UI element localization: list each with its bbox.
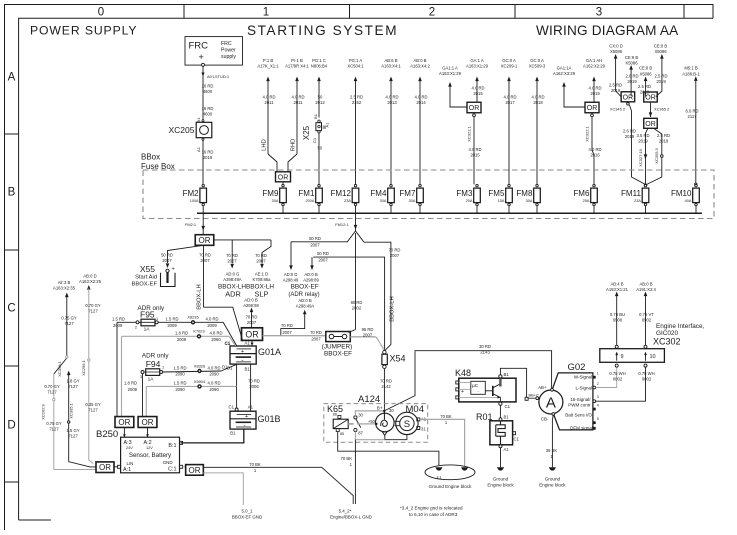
- svg-text:BBOX-EF: BBOX-EF: [132, 281, 158, 287]
- svg-text:0002: 0002: [642, 377, 652, 382]
- svg-text:2007: 2007: [363, 333, 373, 338]
- svg-text:A162:X2:29: A162:X2:29: [583, 64, 606, 69]
- svg-text:OR: OR: [645, 95, 656, 102]
- svg-text:A1: A1: [325, 122, 330, 128]
- svg-text:4600: 4600: [203, 89, 213, 94]
- svg-text:0.75 WH: 0.75 WH: [609, 371, 625, 376]
- svg-text:FM1: FM1: [298, 189, 315, 198]
- svg-text:2017: 2017: [505, 100, 515, 105]
- svg-text:0.70 GY: 0.70 GY: [44, 384, 60, 389]
- svg-text:2007: 2007: [310, 242, 320, 247]
- wire XC205 to FM2: [202, 140, 204, 184]
- fuse FM3: [456, 184, 480, 213]
- svg-text:AD:0 B: AD:0 B: [304, 272, 317, 277]
- svg-text:FM10: FM10: [671, 189, 692, 198]
- svg-text:1.5 RD: 1.5 RD: [112, 317, 125, 322]
- svg-text:30: 30: [389, 408, 394, 413]
- svg-text:XC302: XC302: [653, 337, 681, 347]
- svg-text:F94: F94: [146, 359, 161, 369]
- svg-text:2.5 RD: 2.5 RD: [638, 84, 651, 89]
- svg-text:2.5 RD: 2.5 RD: [609, 82, 622, 87]
- OR gate at B250 C:1: [183, 466, 186, 468]
- wire split below FM12: [347, 231, 364, 242]
- svg-text:2090: 2090: [209, 387, 219, 392]
- svg-text:OR: OR: [199, 236, 211, 245]
- svg-text:XC205: XC205: [169, 125, 195, 135]
- svg-text:85: 85: [340, 432, 344, 436]
- svg-text:XC327:19: XC327:19: [638, 148, 643, 167]
- wire LHD bend to OR: [268, 154, 277, 172]
- svg-text:70 RD: 70 RD: [199, 253, 211, 258]
- svg-text:Ground: Ground: [545, 477, 561, 482]
- svg-text:2.6 RD: 2.6 RD: [625, 73, 638, 78]
- node XC305:1 stub: [67, 371, 71, 376]
- svg-text:AB:0 B: AB:0 B: [413, 58, 426, 63]
- svg-text:OR: OR: [469, 105, 480, 112]
- OR gate left above FM11: [621, 92, 635, 102]
- BBox Fuse Box dashed enclosure: [143, 170, 714, 219]
- svg-text:AB:6 B: AB:6 B: [384, 58, 397, 63]
- svg-text:Start Aid: Start Aid: [135, 275, 157, 281]
- svg-text:C1: C1: [505, 404, 511, 409]
- svg-text:OR: OR: [245, 329, 258, 339]
- svg-text:7127: 7127: [68, 434, 78, 439]
- svg-text:*3,4_2 Engine gnd is relocated: *3,4_2 Engine gnd is relocated: [400, 506, 463, 511]
- svg-text:AD:0 G: AD:0 G: [226, 272, 240, 277]
- fuse FM8: [516, 184, 540, 213]
- svg-text:X8326: X8326: [194, 363, 205, 368]
- svg-text:50 RD: 50 RD: [317, 251, 329, 256]
- svg-text:4.0 RD: 4.0 RD: [207, 381, 220, 386]
- svg-text:A:2: A:2: [144, 440, 152, 446]
- fuse FM7: [399, 184, 423, 213]
- svg-text:1A: 1A: [148, 376, 155, 382]
- svg-text:A191:X2:4: A191:X2:4: [636, 287, 656, 292]
- svg-text:1: 1: [162, 366, 164, 370]
- svg-text:FM8: FM8: [516, 189, 533, 198]
- svg-text:GA1:1 A: GA1:1 A: [442, 66, 458, 71]
- svg-text:70 RD: 70 RD: [380, 379, 392, 384]
- svg-text:30: 30: [358, 413, 363, 418]
- svg-text:+50: +50: [368, 419, 376, 424]
- svg-text:GA:1 AH: GA:1 AH: [586, 58, 602, 63]
- svg-text:2.5 RD: 2.5 RD: [657, 133, 670, 138]
- svg-text:B: B: [8, 187, 16, 199]
- svg-text:FM9: FM9: [262, 189, 279, 198]
- svg-text:1.5 RD: 1.5 RD: [173, 365, 186, 370]
- svg-text:2143: 2143: [480, 350, 490, 355]
- fuse FM9: [262, 184, 286, 213]
- svg-text:7127: 7127: [88, 309, 98, 314]
- svg-text:G02: G02: [568, 362, 586, 373]
- svg-text:B1: B1: [313, 113, 318, 119]
- svg-text:A: A: [546, 394, 556, 411]
- svg-text:2002: 2002: [352, 306, 362, 311]
- svg-text:95 RD: 95 RD: [362, 327, 374, 332]
- svg-text:DFM signal: DFM signal: [570, 425, 593, 430]
- svg-text:AD:0 B: AD:0 B: [244, 298, 257, 303]
- svg-text:0.35 GY: 0.35 GY: [85, 402, 101, 407]
- svg-text:XC209-1: XC209-1: [501, 64, 518, 69]
- svg-text:31: 31: [421, 427, 426, 432]
- svg-text:4.0 RD: 4.0 RD: [468, 147, 481, 152]
- svg-text:D: D: [7, 420, 15, 432]
- svg-text:1.8 RD: 1.8 RD: [175, 331, 188, 336]
- svg-text:2019: 2019: [656, 79, 666, 84]
- wire G02 CB- to ground: [551, 415, 554, 467]
- svg-text:K709:86a: K709:86a: [253, 277, 272, 282]
- svg-text:+: +: [172, 267, 175, 273]
- svg-text:50 RD: 50 RD: [161, 253, 173, 258]
- svg-text:GND: GND: [163, 460, 173, 465]
- OR gate hub below FM2: [195, 235, 214, 246]
- wire R01 to ground: [500, 448, 502, 468]
- svg-text:A163:X2:35: A163:X2:35: [53, 286, 76, 291]
- wire FRC to XC205: [202, 66, 204, 120]
- svg-text:2007: 2007: [247, 320, 257, 325]
- svg-text:70 RD: 70 RD: [255, 253, 267, 258]
- svg-text:6.0 RD: 6.0 RD: [685, 108, 698, 113]
- svg-text:4.0 RD: 4.0 RD: [385, 95, 398, 100]
- svg-text:-: -: [241, 357, 243, 364]
- svg-text:2016: 2016: [590, 153, 600, 158]
- svg-text:2912: 2912: [315, 100, 325, 105]
- svg-text:BB+C: BB+C: [529, 393, 539, 398]
- svg-text:XC398:1: XC398:1: [57, 360, 62, 376]
- svg-text:FRC: FRC: [189, 41, 209, 52]
- svg-text:GA:1 A: GA:1 A: [470, 58, 483, 63]
- svg-text:P:1 B: P:1 B: [263, 58, 273, 63]
- svg-text:0.75 WH: 0.75 WH: [638, 371, 654, 376]
- svg-text:4.0 RD: 4.0 RD: [414, 95, 427, 100]
- svg-text:OR: OR: [645, 121, 656, 128]
- svg-text:1.5 GY: 1.5 GY: [66, 428, 79, 433]
- wire F95 line1: [117, 321, 136, 323]
- svg-text:2006: 2006: [249, 384, 259, 389]
- svg-text:XC365 2: XC365 2: [654, 107, 669, 112]
- svg-text:B1: B1: [504, 414, 510, 419]
- svg-text:0.75 GY: 0.75 GY: [46, 421, 62, 426]
- svg-text:GC:0 A: GC:0 A: [530, 58, 544, 63]
- svg-text:OR: OR: [99, 463, 111, 472]
- fuse FM1: [298, 184, 322, 213]
- svg-text:0002: 0002: [613, 377, 623, 382]
- svg-text:CE:0 B: CE:0 B: [654, 44, 667, 49]
- svg-text:Sensor, Battery: Sensor, Battery: [129, 452, 172, 459]
- svg-text:M5:1 B: M5:1 B: [684, 66, 697, 71]
- svg-text:C1: C1: [229, 405, 235, 410]
- wire line2 (1.8 RD): [122, 335, 230, 337]
- svg-text:Ground Engine block: Ground Engine block: [429, 484, 473, 489]
- wire +50: [357, 423, 375, 425]
- svg-text:LIN: LIN: [127, 461, 134, 466]
- svg-text:2019: 2019: [638, 139, 648, 144]
- svg-text:FM6: FM6: [573, 189, 590, 198]
- svg-text:FRC: FRC: [221, 41, 232, 47]
- svg-text:to 6,10 in case of ADR3: to 6,10 in case of ADR3: [409, 512, 458, 517]
- svg-text:A163:X2:25: A163:X2:25: [79, 279, 102, 284]
- wire 70BK to engine ground: [420, 419, 465, 466]
- fuse FM12: [330, 184, 358, 213]
- svg-text:16 RD: 16 RD: [202, 106, 214, 111]
- svg-text:C1: C1: [514, 437, 520, 442]
- svg-text:3: 3: [597, 395, 599, 399]
- svg-text:2019: 2019: [659, 139, 669, 144]
- svg-text:0: 0: [98, 7, 104, 19]
- wire OR-lower right branch: [647, 128, 662, 184]
- svg-text:2: 2: [135, 326, 137, 330]
- svg-text:Fuse Box: Fuse Box: [141, 162, 175, 171]
- svg-text:2009: 2009: [113, 323, 123, 328]
- svg-text:30A: 30A: [380, 199, 387, 203]
- K65 contact 30/87: [354, 416, 357, 419]
- wire 80RD into jumper: [349, 330, 356, 333]
- svg-text:AD:0 D: AD:0 D: [284, 272, 298, 277]
- svg-text:100A: 100A: [190, 199, 199, 203]
- svg-text:A298:98: A298:98: [243, 303, 259, 308]
- svg-text:50: 50: [317, 146, 322, 151]
- svg-text:A: A: [8, 72, 16, 84]
- svg-text:30A: 30A: [526, 199, 533, 203]
- svg-text:30 RD: 30 RD: [479, 344, 491, 349]
- wire RHD bend to OR: [288, 154, 297, 172]
- svg-text:2013: 2013: [387, 100, 397, 105]
- svg-text:X25: X25: [302, 125, 311, 140]
- svg-text:AB:0 D: AB:0 D: [83, 274, 96, 279]
- svg-text:XC345 2: XC345 2: [610, 107, 625, 112]
- connector XC302: [600, 349, 665, 363]
- svg-text:23A: 23A: [344, 199, 351, 203]
- svg-text:A163:X4:2: A163:X4:2: [410, 64, 430, 69]
- wires G01A down to G01B: [236, 364, 238, 408]
- svg-text:FM2:1: FM2:1: [185, 222, 196, 227]
- wire K48 B1 to alternator B+: [500, 368, 526, 397]
- svg-text:40A: 40A: [685, 199, 692, 203]
- svg-text:80 RD: 80 RD: [351, 300, 363, 305]
- svg-text:A298:49A: A298:49A: [296, 303, 315, 308]
- svg-text:2007: 2007: [390, 253, 400, 258]
- svg-text:F95: F95: [140, 310, 155, 320]
- wire hub right manifold: [214, 239, 271, 241]
- svg-text:LHD: LHD: [262, 139, 268, 151]
- svg-text:0.75 GY: 0.75 GY: [61, 316, 77, 321]
- svg-text:FM4: FM4: [370, 189, 387, 198]
- FRC power supply box: [185, 37, 243, 66]
- fuse FM2: [183, 184, 207, 213]
- svg-text:-: -: [243, 423, 245, 430]
- svg-text:A124: A124: [358, 394, 380, 405]
- svg-text:2009: 2009: [207, 323, 217, 328]
- svg-text:70 RD: 70 RD: [248, 379, 260, 384]
- svg-text:3: 3: [140, 375, 142, 379]
- svg-text:XC202:9: XC202:9: [41, 403, 46, 419]
- svg-text:2090: 2090: [175, 372, 185, 377]
- svg-text:15A: 15A: [498, 199, 505, 203]
- svg-text:S: S: [404, 419, 410, 430]
- svg-text:2007: 2007: [282, 330, 292, 335]
- svg-text:Batt Sens I/O: Batt Sens I/O: [565, 412, 592, 417]
- svg-text:4.0 RD: 4.0 RD: [471, 86, 484, 91]
- OR gate above FM9: [276, 172, 291, 182]
- svg-text:2019: 2019: [625, 134, 635, 139]
- svg-text:9: 9: [621, 354, 624, 360]
- svg-text:Engine/BBOX-L GND: Engine/BBOX-L GND: [330, 515, 372, 520]
- svg-text:70 RD: 70 RD: [281, 323, 293, 328]
- wire right arm to BBOX-LH drop: [364, 242, 391, 350]
- svg-text:BBox: BBox: [141, 153, 160, 162]
- svg-text:5: 5: [597, 417, 599, 421]
- svg-text:1A: 1A: [144, 327, 151, 333]
- svg-text:A163:X4:1: A163:X4:1: [381, 64, 401, 69]
- svg-text:X55: X55: [140, 264, 155, 274]
- svg-text:86: 86: [333, 413, 337, 417]
- svg-text:20A: 20A: [466, 199, 473, 203]
- branch AD:0D arrow: [290, 242, 292, 266]
- svg-text:CX:0 D: CX:0 D: [609, 44, 623, 49]
- svg-text:0.75 VT: 0.75 VT: [639, 312, 654, 317]
- svg-text:CE:0 B: CE:0 B: [639, 66, 652, 71]
- svg-text:1: 1: [263, 7, 269, 19]
- svg-text:RHD: RHD: [291, 139, 297, 152]
- fuse FM5: [488, 184, 512, 213]
- svg-text:A0'LSTUD:1: A0'LSTUD:1: [207, 74, 230, 79]
- svg-text:FM12: FM12: [330, 189, 351, 198]
- svg-text:2014: 2014: [416, 100, 426, 105]
- svg-text:3.5 RD: 3.5 RD: [636, 133, 649, 138]
- svg-text:2152: 2152: [352, 100, 362, 105]
- svg-text:70 RD: 70 RD: [389, 248, 401, 253]
- svg-text:2019: 2019: [611, 88, 621, 93]
- ground engine block (G02): [549, 467, 556, 470]
- wire F94 line3 to D1: [163, 371, 221, 372]
- svg-text:16 RD: 16 RD: [202, 84, 214, 89]
- svg-text:2060: 2060: [211, 337, 221, 342]
- wire 30 RD 2143 starter to alternator: [384, 351, 551, 411]
- svg-text:70 RD: 70 RD: [246, 315, 258, 320]
- svg-text:A298:49: A298:49: [283, 278, 299, 283]
- svg-text:POWER SUPPLY: POWER SUPPLY: [30, 23, 137, 37]
- starter internal ground: [382, 432, 387, 435]
- svg-text:GA1:1A: GA1:1A: [557, 66, 572, 71]
- svg-text:G01A: G01A: [258, 347, 281, 357]
- wire F95 line1 to C1: [223, 322, 237, 346]
- svg-text:B+: B+: [377, 406, 383, 411]
- svg-text:µC: µC: [472, 383, 479, 389]
- fuse FM10: [671, 184, 699, 213]
- svg-text:FM5: FM5: [488, 189, 505, 198]
- svg-text:2: 2: [429, 7, 435, 19]
- OR gate lower above FM11: [650, 102, 652, 117]
- wire 87 to motor ground bus: [355, 432, 384, 440]
- svg-text:PG:1 A: PG:1 A: [349, 58, 362, 63]
- branch ADR arrow: [231, 240, 233, 264]
- svg-text:C1: C1: [225, 341, 231, 346]
- wire G01B B1 to B250: [181, 429, 244, 443]
- svg-text:A1: A1: [245, 341, 251, 346]
- svg-text:B250: B250: [96, 429, 118, 440]
- svg-text:Engine Interface,: Engine Interface,: [656, 323, 705, 330]
- svg-text:FM3: FM3: [456, 189, 473, 198]
- svg-text:2007: 2007: [311, 336, 321, 341]
- node AB:0B feed: [645, 295, 647, 345]
- node AB:4B feed: [616, 295, 618, 345]
- svg-text:+: +: [245, 414, 248, 420]
- svg-text:B:1: B:1: [168, 443, 176, 449]
- svg-text:30A: 30A: [272, 199, 279, 203]
- svg-text:1.5 RD: 1.5 RD: [165, 317, 178, 322]
- svg-text:3: 3: [596, 7, 602, 19]
- svg-text:2019: 2019: [627, 79, 637, 84]
- wire X54 down to starter: [383, 368, 385, 420]
- svg-text:A162:X3:29: A162:X3:29: [553, 71, 576, 76]
- svg-text:A163:X1:29: A163:X1:29: [439, 71, 462, 76]
- jumper BBOX-EF: [326, 332, 351, 342]
- wire OR-lower left branch: [646, 128, 649, 184]
- fuse FM6: [573, 184, 597, 213]
- svg-text:A163:X1:29: A163:X1:29: [466, 64, 489, 69]
- battery G01B: [230, 411, 256, 429]
- svg-text:Power: Power: [221, 48, 236, 54]
- svg-text:STARTING SYSTEM: STARTING SYSTEM: [247, 23, 398, 38]
- wire to BBOX-EF GND: [203, 473, 243, 505]
- svg-text:PWM contr: PWM contr: [568, 402, 591, 407]
- svg-text:AB+: AB+: [538, 385, 547, 390]
- svg-text:M04: M04: [406, 404, 424, 415]
- svg-text:+: +: [241, 349, 244, 355]
- svg-text:2009: 2009: [167, 323, 177, 328]
- fuse FM4: [370, 184, 394, 213]
- branch SLP arrow: [262, 240, 271, 264]
- svg-text:70 RD: 70 RD: [226, 253, 238, 258]
- svg-text:25A: 25A: [583, 199, 590, 203]
- wires down to OR A:2: [142, 374, 144, 417]
- svg-text:C1: C1: [312, 137, 317, 143]
- svg-text:K5086: K5086: [625, 60, 638, 65]
- svg-text:2007: 2007: [318, 258, 328, 263]
- svg-text:PG:1 C: PG:1 C: [312, 58, 326, 63]
- svg-text:⌐: ⌐: [478, 390, 480, 394]
- svg-text:WIRING DIAGRAM AA: WIRING DIAGRAM AA: [536, 23, 679, 38]
- K48 transistor: [492, 386, 494, 396]
- svg-text:C: C: [7, 303, 15, 315]
- svg-text:4.0 RD: 4.0 RD: [588, 147, 601, 152]
- svg-text:3:1: 3:1: [436, 474, 441, 479]
- svg-text:70 RD: 70 RD: [310, 330, 322, 335]
- svg-text:2090: 2090: [175, 387, 185, 392]
- wire OR-left down to FM11: [630, 105, 646, 185]
- svg-text:XC504:1: XC504:1: [347, 64, 364, 69]
- svg-text:7127: 7127: [49, 427, 59, 432]
- svg-text:XC509-3: XC509-3: [529, 64, 546, 69]
- wire line4 (to G01B C1): [146, 385, 236, 387]
- svg-text:+: +: [199, 52, 204, 62]
- svg-text:A186:B-1: A186:B-1: [682, 71, 700, 76]
- svg-text:70 BK: 70 BK: [341, 456, 353, 461]
- svg-text:0902: 0902: [642, 318, 652, 323]
- svg-text:A298:49A: A298:49A: [223, 277, 242, 282]
- svg-text:4.0 RD: 4.0 RD: [531, 95, 544, 100]
- wire left arm branch 50RD: [291, 241, 347, 243]
- svg-text:1: 1: [597, 372, 599, 376]
- svg-text:50: 50: [318, 95, 323, 100]
- svg-text:A1: A1: [504, 447, 510, 452]
- OR gate above G01A: [242, 328, 263, 341]
- svg-text:0900: 0900: [613, 318, 623, 323]
- svg-text:BBOX-LH: BBOX-LH: [197, 284, 203, 309]
- ground engine block (M04): [461, 467, 468, 470]
- battery G01A: [230, 346, 256, 364]
- connector X54: [383, 350, 386, 353]
